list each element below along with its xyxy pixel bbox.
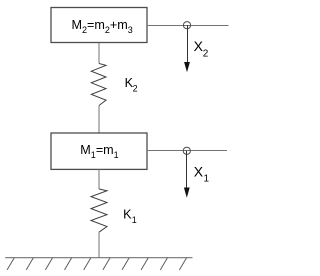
wire M1 to node 1 — [147, 150, 227, 152]
mass M2 box — [51, 8, 147, 43]
ground hatch 8 — [141, 258, 148, 270]
spring K2 — [91, 64, 106, 106]
ground hatch 1 — [7, 258, 14, 270]
ground line — [5, 257, 192, 259]
spring K1 — [91, 189, 107, 232]
wire spring K1 to ground — [98, 232, 100, 258]
ground hatch 4 — [65, 258, 72, 270]
svg-text:X: X — [194, 164, 204, 180]
ground hatch 3 — [45, 258, 52, 270]
svg-text:1: 1 — [132, 215, 137, 225]
node 2 (pivot circle) — [183, 22, 190, 29]
svg-text:1: 1 — [204, 174, 210, 185]
ground hatch 7 — [122, 258, 129, 270]
wire M1 to spring K1 — [98, 169, 100, 189]
ground hatch 5 — [84, 258, 91, 270]
wire spring K2 to M1 — [98, 106, 100, 134]
svg-text:2: 2 — [203, 49, 209, 60]
svg-text:2: 2 — [133, 84, 138, 94]
ground hatch 6 — [103, 258, 110, 270]
wire M2 to spring K2 — [98, 43, 100, 64]
arrow X2 — [187, 25, 189, 63]
ground hatch 2 — [26, 258, 33, 270]
arrow X1 — [186, 151, 188, 189]
node 1 (pivot circle) — [183, 147, 190, 154]
wire M2 to node 2 — [147, 25, 229, 27]
ground hatch 9 — [160, 258, 167, 270]
mass M1 box — [51, 133, 147, 169]
ground hatch 10 — [179, 258, 186, 270]
